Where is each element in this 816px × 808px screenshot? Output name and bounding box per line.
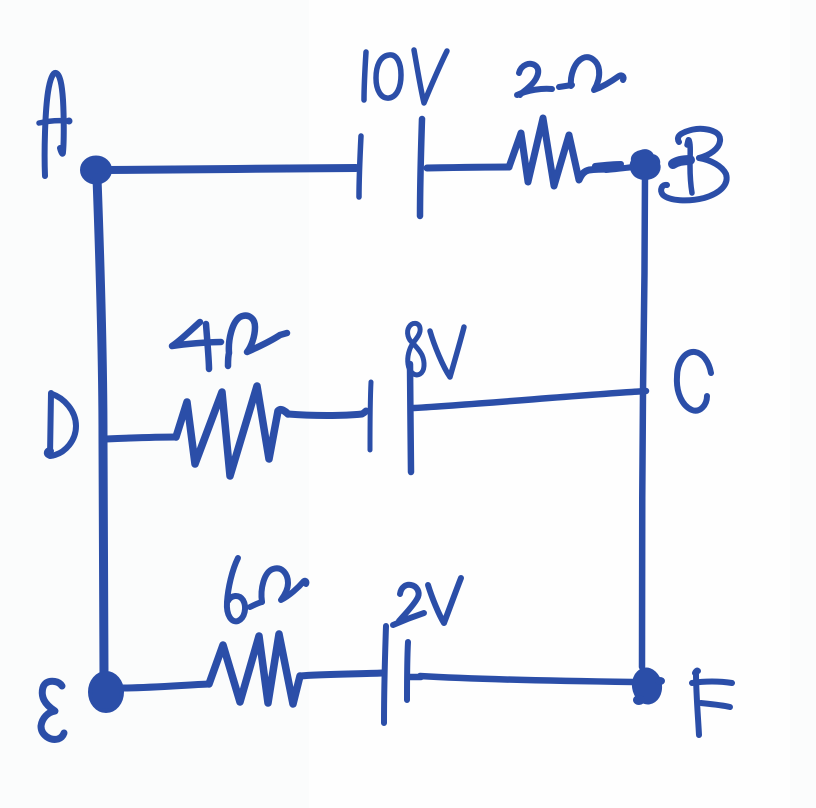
- node A junction dot: [82, 158, 110, 183]
- wire V1 to resistor R1: [427, 167, 509, 168]
- battery V2 long plate: [410, 364, 411, 472]
- wire R1 to node B: [595, 164, 633, 170]
- label 8V: [408, 323, 464, 377]
- label 6ohm: [227, 558, 307, 621]
- resistor R1 zigzag: [509, 118, 610, 186]
- node label E (epsilon): [41, 681, 64, 739]
- resistor R3 zigzag: [209, 634, 300, 704]
- wire node B down through C to F (right vertical): [642, 174, 645, 667]
- wire R2 to battery V2: [288, 411, 366, 416]
- node label D: [47, 393, 76, 456]
- node F junction dot: [630, 666, 665, 707]
- resistor R2 zigzag: [176, 386, 288, 476]
- battery V3 short plate: [407, 642, 408, 700]
- battery V2 short plate: [370, 382, 371, 450]
- label 2ohm: [517, 57, 624, 95]
- label 2V: [393, 578, 461, 625]
- wire V3 to node F: [409, 676, 633, 682]
- wire D to resistor R2: [106, 437, 176, 439]
- node B junction dot: [632, 151, 659, 178]
- wire R3 to battery V3: [300, 673, 382, 676]
- node label C: [677, 352, 711, 411]
- wire node A down through D to E (left vertical): [97, 178, 104, 676]
- label 10V: [364, 50, 447, 103]
- wire V2 to node C: [414, 391, 646, 408]
- battery V3 long plate: [384, 626, 386, 723]
- wire A to battery V1: [106, 168, 356, 170]
- node label F: [692, 671, 732, 735]
- battery V1 short plate: [359, 136, 361, 197]
- wire E to resistor R3: [122, 684, 209, 688]
- node label A: [39, 73, 73, 176]
- node label B: [661, 129, 726, 201]
- label 4ohm: [172, 316, 287, 369]
- node E junction dot: [90, 673, 122, 711]
- battery V1 long plate: [420, 119, 422, 216]
